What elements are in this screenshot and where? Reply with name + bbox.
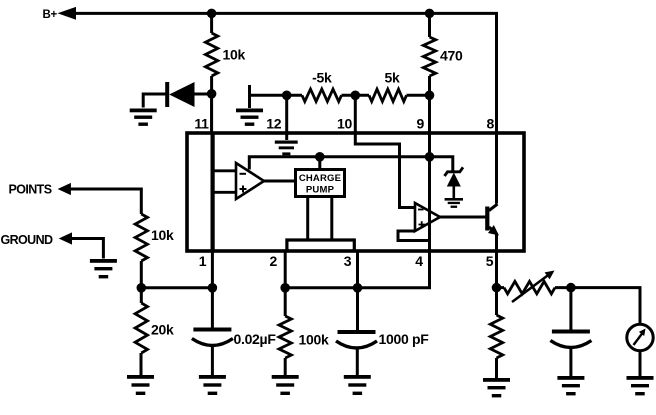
svg-text:POINTS: POINTS	[9, 183, 52, 197]
svg-text:10k: 10k	[223, 47, 246, 63]
svg-text:12: 12	[266, 116, 281, 132]
svg-text:CHARGE: CHARGE	[299, 173, 341, 184]
svg-text:1000 pF: 1000 pF	[379, 331, 430, 347]
svg-text:B+: B+	[43, 9, 58, 21]
svg-text:11: 11	[194, 116, 209, 132]
svg-text:9: 9	[417, 116, 425, 132]
svg-text:4: 4	[415, 253, 423, 269]
svg-text:470: 470	[440, 48, 463, 64]
svg-text:8: 8	[486, 116, 494, 132]
svg-text:2: 2	[270, 253, 278, 269]
svg-text:0.02µF: 0.02µF	[234, 331, 277, 347]
svg-text:1: 1	[199, 253, 207, 269]
svg-text:100k: 100k	[299, 332, 329, 348]
svg-text:10k: 10k	[151, 227, 174, 243]
svg-text:-5k: -5k	[312, 70, 332, 86]
svg-text:10: 10	[337, 116, 352, 132]
svg-text:PUMP: PUMP	[306, 185, 335, 196]
svg-text:5k: 5k	[385, 70, 400, 86]
svg-text:3: 3	[344, 253, 352, 269]
svg-text:20k: 20k	[151, 322, 174, 338]
svg-text:GROUND: GROUND	[1, 233, 54, 247]
svg-text:5: 5	[486, 253, 494, 269]
